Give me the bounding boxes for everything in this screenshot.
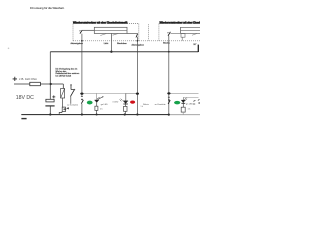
svg-text:zu Kontakte: zu Kontakte xyxy=(155,103,167,106)
svg-text:zu Kontakte: zu Kontakte xyxy=(67,104,79,107)
svg-text:DC-Lösung für die Wäschetr.: DC-Lösung für die Wäschetr. xyxy=(30,6,65,10)
svg-text:Steckd.: Steckd. xyxy=(163,41,170,44)
svg-text:1 k: 1 k xyxy=(100,108,104,110)
svg-text:rt LED: rt LED xyxy=(112,101,118,104)
svg-text:Abzweigdose: Abzweigdose xyxy=(132,43,145,46)
svg-text:Relais: Relais xyxy=(143,104,149,106)
svg-text:1 k: 1 k xyxy=(188,109,192,111)
svg-text:Abzweigdose: Abzweigdose xyxy=(71,42,84,45)
svg-text:gn LED: gn LED xyxy=(101,104,108,106)
svg-text:1 k: 1 k xyxy=(141,106,143,108)
svg-text:18V DC: 18V DC xyxy=(16,95,34,101)
svg-text:gn LED: gn LED xyxy=(186,104,193,106)
svg-text:Steckdose: Steckdose xyxy=(117,42,128,45)
svg-text:bei 18V/1k Schalt: bei 18V/1k Schalt xyxy=(56,75,72,78)
svg-text:z.B. 1k0 Ohm: z.B. 1k0 Ohm xyxy=(19,77,38,81)
svg-text:Licht: Licht xyxy=(104,42,109,45)
svg-text:NY: NY xyxy=(194,44,198,46)
